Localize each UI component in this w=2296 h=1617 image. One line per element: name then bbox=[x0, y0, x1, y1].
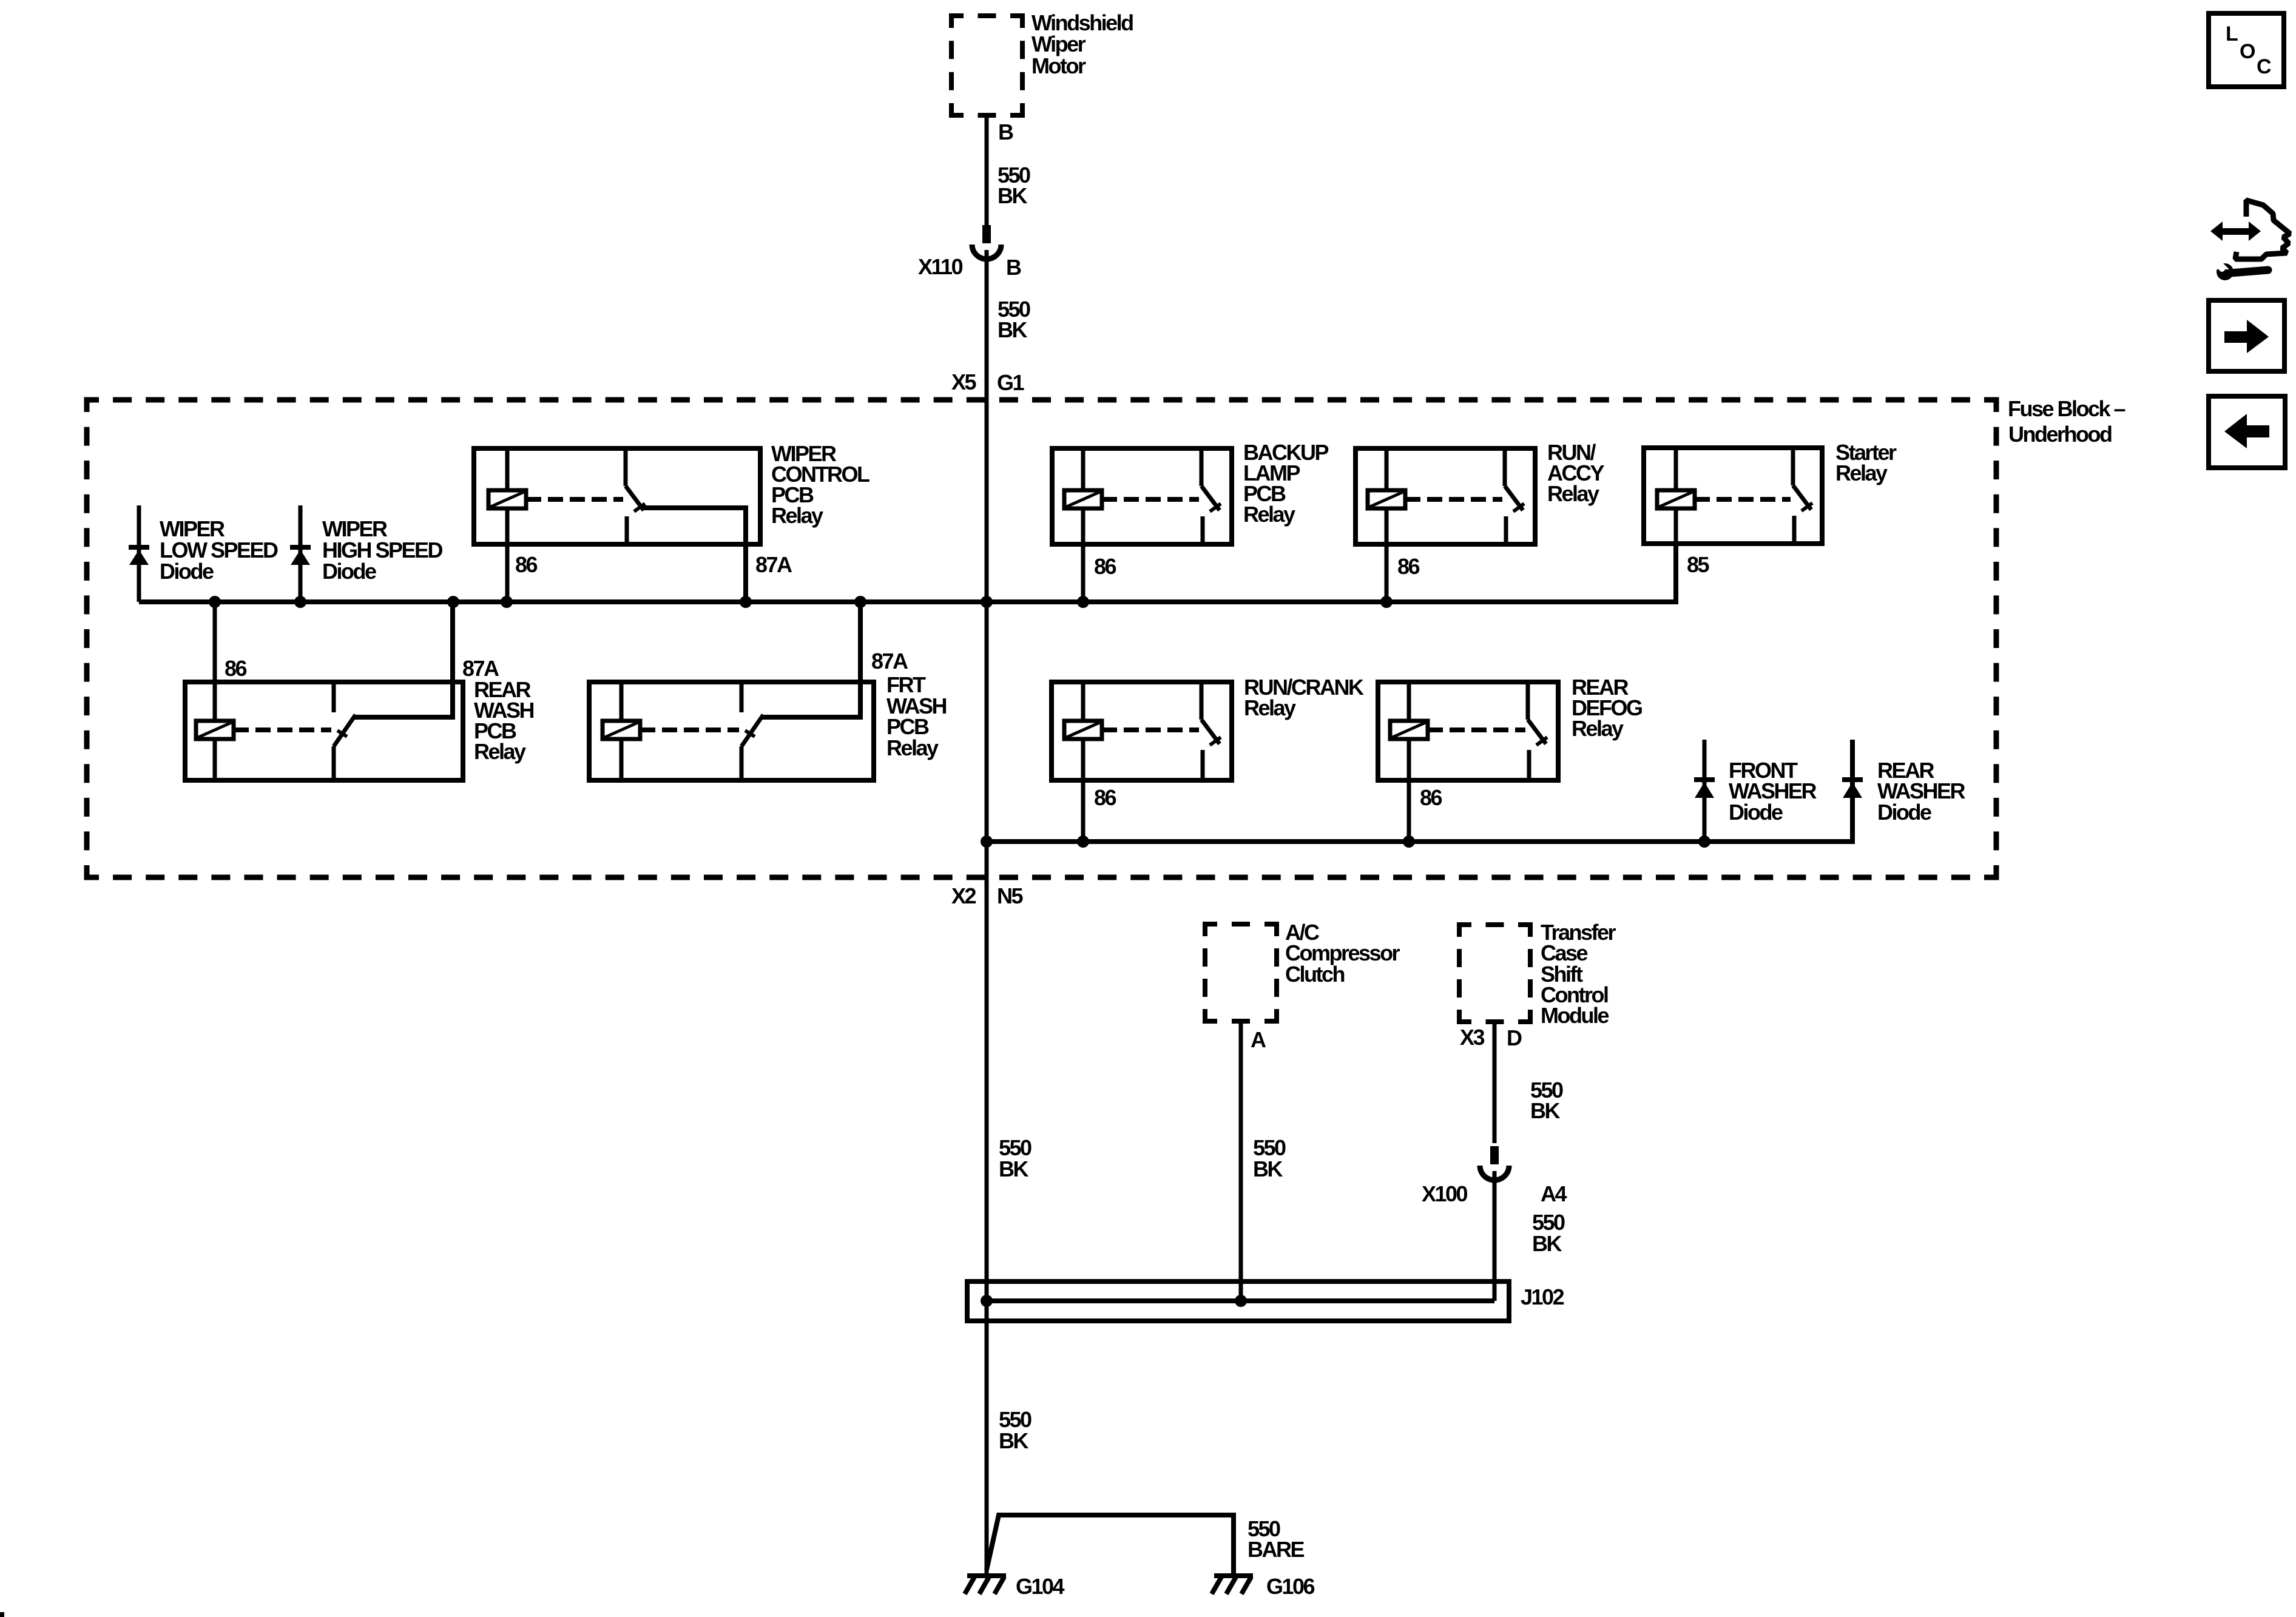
svg-text:BARE: BARE bbox=[1248, 1537, 1304, 1562]
svg-text:Relay: Relay bbox=[1244, 695, 1296, 720]
page artifact dot (bottom-left) bbox=[0, 1612, 4, 1617]
label: REAR WASHER Diode bbox=[1877, 758, 1966, 825]
relay: FRT WASH PCB Relay (box) bbox=[589, 682, 874, 780]
relay coil (Starter) bbox=[1657, 490, 1695, 508]
svg-text:Relay: Relay bbox=[1835, 461, 1888, 485]
connector X100 (inline connector symbol) bbox=[1480, 1146, 1509, 1180]
wire: J102 to ground G104 bbox=[985, 1301, 989, 1575]
icon: forward arrow box bbox=[2209, 300, 2284, 371]
svg-text:C: C bbox=[2257, 55, 2271, 78]
relay: RUN/ACCY Relay (box) bbox=[1356, 448, 1535, 544]
value label: wire 550 BARE (G106 lead) bbox=[1248, 1516, 1304, 1562]
svg-text:Relay: Relay bbox=[474, 739, 526, 764]
svg-text:86: 86 bbox=[515, 552, 538, 577]
junction on bus 2 at x=2809 bbox=[1698, 836, 1710, 848]
splice pack J102 (box) bbox=[967, 1281, 1509, 1321]
connector: Transfer Case Shift Control Module (dashed component box) bbox=[1459, 925, 1530, 1022]
relay coil (RUN/ACCY) bbox=[1368, 490, 1405, 508]
svg-text:BK: BK bbox=[999, 1156, 1028, 1181]
relay: RUN/CRANK Relay (box) bbox=[1052, 682, 1232, 780]
svg-text:X100: X100 bbox=[1422, 1181, 1468, 1206]
svg-text:87A: 87A bbox=[871, 649, 908, 673]
junction in J102 at trunk bbox=[981, 1295, 993, 1307]
svg-text:86: 86 bbox=[1397, 554, 1420, 579]
wire: pin 87A contact to bus (REAR WASH) bbox=[354, 602, 453, 717]
value label: wire 550 BK (transfer branch upper) bbox=[1530, 1078, 1563, 1123]
relay coil (REAR DEFOG) bbox=[1390, 721, 1428, 739]
svg-text:Relay: Relay bbox=[886, 735, 939, 760]
svg-text:86: 86 bbox=[225, 656, 247, 681]
relay control dashed link (BACKUP LAMP) bbox=[1102, 497, 1199, 502]
svg-text:Relay: Relay bbox=[1243, 502, 1295, 527]
svg-text:85: 85 bbox=[1687, 552, 1710, 577]
wire: pin 86 coil lead (BACKUP LAMP) bbox=[1081, 448, 1086, 602]
svg-text:Wiper: Wiper bbox=[1032, 32, 1086, 56]
relay coil (REAR WASH) bbox=[196, 721, 234, 739]
junction on bus 1 at x=354 bbox=[209, 596, 221, 608]
wire: pin 86 coil lead (RUN/CRANK) bbox=[1081, 682, 1086, 842]
relay: REAR DEFOG Relay (box) bbox=[1378, 682, 1558, 780]
svg-text:G106: G106 bbox=[1266, 1574, 1315, 1599]
icon: LOC legend box bbox=[2209, 13, 2284, 87]
relay coil (RUN/CRANK) bbox=[1064, 721, 1102, 739]
svg-text:B: B bbox=[998, 120, 1013, 144]
relay control dashed link (FRT WASH) bbox=[640, 727, 739, 732]
label: Fuse Block - Underhood bbox=[2008, 396, 2125, 447]
icon: repair/tool symbol (double arrow, part outline, wrench) bbox=[2209, 200, 2290, 280]
relay switch (REAR DEFOG) bbox=[1528, 682, 1547, 780]
svg-text:BK: BK bbox=[1253, 1156, 1283, 1181]
wire: pin 87A contact to bus (FRT WASH) bbox=[762, 602, 860, 717]
svg-text:X110: X110 bbox=[918, 254, 963, 279]
relay switch (RUN/CRANK) bbox=[1201, 682, 1221, 780]
connector: A/C Compressor Clutch (dashed component box) bbox=[1205, 924, 1277, 1021]
svg-text:BK: BK bbox=[999, 1428, 1028, 1453]
icon: back arrow box bbox=[2209, 396, 2285, 468]
svg-text:G1: G1 bbox=[997, 370, 1025, 395]
junction on bus 1 at x=1418 bbox=[854, 596, 866, 608]
diode: WIPER LOW SPEED Diode bbox=[129, 505, 149, 602]
label: WIPER CONTROL PCB Relay bbox=[771, 441, 869, 528]
label: A/C Compressor Clutch bbox=[1285, 920, 1400, 987]
svg-text:L: L bbox=[2226, 22, 2238, 46]
junction on bus 1 at x=835 bbox=[501, 596, 513, 608]
relay: WIPER CONTROL PCB Relay (box) bbox=[474, 448, 760, 544]
wire: X100 down to J102 bbox=[1493, 1171, 1497, 1301]
relay: REAR WASH PCB Relay (box) bbox=[185, 682, 463, 780]
diode: WIPER HIGH SPEED Diode bbox=[290, 505, 311, 602]
relay switch (Starter) bbox=[1793, 448, 1812, 544]
label: Transfer Case Shift Control Module bbox=[1541, 920, 1616, 1028]
net: splice bar inside J102 bbox=[987, 1298, 1494, 1303]
value label: wire 550 BK (motor to X110) bbox=[998, 163, 1030, 208]
svg-text:87A: 87A bbox=[755, 552, 792, 577]
connector X110 (inline connector symbol) bbox=[972, 225, 1001, 259]
junction on bus 1 at x=1785 bbox=[1077, 596, 1089, 608]
label: BACKUP LAMP PCB Relay bbox=[1243, 440, 1328, 527]
value label: wire 550 BK (transfer branch lower) bbox=[1532, 1210, 1565, 1256]
svg-text:A: A bbox=[1251, 1027, 1266, 1052]
relay control dashed link (REAR DEFOG) bbox=[1428, 727, 1525, 732]
svg-text:BK: BK bbox=[1532, 1231, 1562, 1256]
svg-text:BK: BK bbox=[1530, 1098, 1560, 1123]
svg-text:Relay: Relay bbox=[771, 503, 823, 528]
label: Starter Relay bbox=[1835, 440, 1897, 485]
wire: pin 86 coil lead (WIPER CONTROL) bbox=[505, 448, 510, 602]
wire: trunk inside fuse block (G1 to N5) bbox=[985, 400, 989, 877]
value label: wire 550 BK (ground lead) bbox=[999, 1407, 1032, 1453]
relay switch (RUN/ACCY) bbox=[1505, 448, 1524, 544]
svg-text:86: 86 bbox=[1420, 785, 1442, 810]
svg-text:X5: X5 bbox=[951, 370, 977, 394]
wire: X110 to fuse block pin G1 bbox=[985, 250, 989, 400]
wire: trunk N5 down to splice J102 bbox=[985, 877, 989, 1301]
value label: wire 550 BK (A/C branch) bbox=[1253, 1135, 1286, 1181]
svg-text:86: 86 bbox=[1094, 785, 1116, 810]
junction in J102 at A/C branch bbox=[1235, 1295, 1247, 1307]
relay coil (BACKUP LAMP) bbox=[1064, 490, 1102, 508]
svg-text:Relay: Relay bbox=[1572, 716, 1624, 741]
svg-text:D: D bbox=[1507, 1025, 1522, 1050]
relay control dashed link (Starter) bbox=[1695, 497, 1791, 502]
svg-text:Motor: Motor bbox=[1032, 53, 1086, 78]
svg-text:Diode: Diode bbox=[160, 559, 214, 584]
label: FRONT WASHER Diode bbox=[1729, 758, 1817, 825]
junction on bus 2 at x=1785 bbox=[1077, 836, 1089, 848]
junction on bus 1 at x=2285 bbox=[1380, 596, 1393, 608]
label: REAR WASH PCB Relay bbox=[474, 677, 534, 764]
junction on bus 2 at x=1626 bbox=[981, 836, 993, 848]
relay control dashed link (RUN/CRANK) bbox=[1102, 727, 1199, 732]
svg-text:Clutch: Clutch bbox=[1285, 962, 1345, 987]
wire: pin 85 coil lead (Starter) bbox=[1674, 448, 1678, 544]
svg-text:X2: X2 bbox=[951, 883, 976, 908]
label: FRT WASH PCB Relay bbox=[886, 672, 947, 760]
wire: transfer case pin D down to X100 bbox=[1493, 1022, 1497, 1143]
junction on bus 1 at x=1626 bbox=[981, 596, 993, 608]
svg-text:O: O bbox=[2240, 40, 2255, 63]
wire: branch to ground G106 bbox=[987, 1515, 1234, 1575]
wire: pin 87A contact to bus (WIPER CONTROL) bbox=[642, 508, 746, 602]
fuse block - underhood (dashed boundary) bbox=[87, 400, 1996, 877]
relay coil (FRT WASH) bbox=[603, 721, 640, 739]
svg-text:BK: BK bbox=[998, 183, 1027, 208]
junction on bus 1 at x=1229 bbox=[740, 596, 752, 608]
value label: wire 550 BK (trunk) bbox=[999, 1135, 1032, 1181]
wire: coil lead inside box (FRT WASH) bbox=[620, 682, 624, 780]
label: REAR DEFOG Relay bbox=[1572, 675, 1642, 741]
label: RUN/CRANK Relay bbox=[1244, 675, 1364, 720]
junction on bus 2 at x=2322 bbox=[1403, 836, 1415, 848]
wire: pin 86 coil lead (RUN/ACCY) bbox=[1385, 448, 1389, 602]
svg-text:G104: G104 bbox=[1016, 1574, 1065, 1599]
svg-text:Diode: Diode bbox=[322, 559, 376, 584]
label: WIPER HIGH SPEED Diode bbox=[322, 516, 443, 584]
relay switch (BACKUP LAMP) bbox=[1201, 448, 1221, 544]
connector: Windshield Wiper Motor (dashed component box) bbox=[951, 16, 1022, 115]
label: Windshield Wiper Motor bbox=[1032, 10, 1133, 78]
relay control dashed link (REAR WASH) bbox=[234, 727, 331, 732]
relay switch (WIPER CONTROL) bbox=[626, 448, 645, 544]
svg-text:Module: Module bbox=[1541, 1003, 1609, 1028]
wire: pin 86 coil lead (REAR DEFOG) bbox=[1407, 682, 1411, 842]
svg-text:B: B bbox=[1006, 255, 1021, 280]
svg-text:X3: X3 bbox=[1460, 1025, 1485, 1050]
svg-text:N5: N5 bbox=[997, 883, 1023, 908]
svg-text:BK: BK bbox=[998, 317, 1027, 342]
wire: wiper motor pin B down to X110 bbox=[985, 115, 989, 225]
diode: FRONT WASHER Diode bbox=[1694, 740, 1715, 842]
svg-text:J102: J102 bbox=[1521, 1284, 1564, 1309]
junction on bus 1 at x=747 bbox=[447, 596, 459, 608]
relay: Starter Relay (box) bbox=[1644, 448, 1822, 544]
svg-text:Fuse Block –: Fuse Block – bbox=[2008, 396, 2125, 421]
wire: A/C clutch pin A down to J102 bbox=[1239, 1021, 1243, 1301]
svg-text:Diode: Diode bbox=[1877, 800, 1931, 825]
svg-text:86: 86 bbox=[1094, 554, 1116, 579]
label: WIPER LOW SPEED Diode bbox=[160, 516, 278, 584]
ground G106 bbox=[1212, 1576, 1253, 1594]
value label: wire 550 BK (X110 to fuse block) bbox=[998, 297, 1030, 342]
relay: BACKUP LAMP PCB Relay (box) bbox=[1052, 448, 1232, 544]
relay switch (REAR WASH) bbox=[334, 682, 356, 780]
diode: REAR WASHER Diode bbox=[1842, 780, 1863, 798]
svg-text:A4: A4 bbox=[1541, 1181, 1567, 1206]
relay coil (WIPER CONTROL) bbox=[488, 490, 526, 508]
relay switch (FRT WASH) bbox=[741, 682, 763, 780]
svg-text:Relay: Relay bbox=[1547, 481, 1599, 506]
net: relay supply bus (row 1) bbox=[139, 544, 1676, 602]
relay control dashed link (RUN/ACCY) bbox=[1405, 497, 1502, 502]
label: RUN/ACCY Relay bbox=[1547, 440, 1604, 506]
svg-text:Diode: Diode bbox=[1729, 800, 1783, 825]
relay control dashed link (WIPER CONTROL) bbox=[526, 497, 623, 502]
junction on bus 1 at x=495 bbox=[294, 596, 306, 608]
ground G104 bbox=[965, 1576, 1006, 1594]
net: ground bus (row 2) bbox=[987, 740, 1852, 842]
wire: pin 86 from bus to coil (REAR WASH) bbox=[213, 602, 217, 780]
svg-text:Underhood: Underhood bbox=[2008, 422, 2112, 447]
